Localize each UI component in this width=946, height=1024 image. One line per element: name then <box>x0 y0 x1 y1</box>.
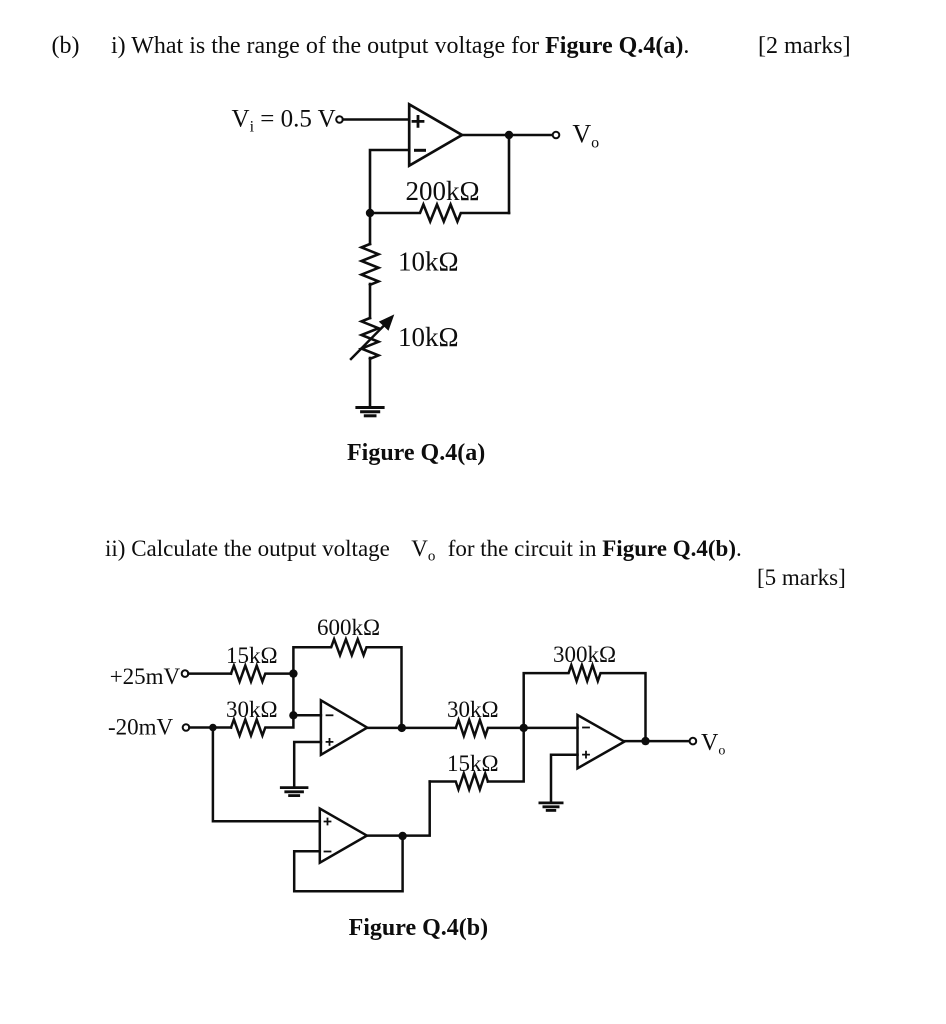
wire U2 output <box>367 727 456 730</box>
svg-text:[2 marks]: [2 marks] <box>758 33 851 59</box>
wire 10k to pot <box>369 284 372 318</box>
question text line i <box>52 33 851 59</box>
wire to 10k <box>369 213 372 244</box>
wire +25mV to 15k <box>188 672 231 675</box>
resistor R8 300k feedback <box>524 665 646 741</box>
wire U3 noninverting to ground <box>551 755 578 802</box>
wire follower feedback <box>294 840 402 891</box>
wire U2 noninverting to ground <box>294 742 321 786</box>
svg-text:Figure Q.4(b): Figure Q.4(b) <box>349 915 489 941</box>
svg-text:Figure Q.4(a): Figure Q.4(a) <box>347 440 485 466</box>
ground fig-a <box>357 406 383 409</box>
wire pot to ground <box>369 358 372 406</box>
node J5 <box>398 832 406 840</box>
svg-text:for the circuit in Figure Q.4(: for the circuit in Figure Q.4(b). <box>448 536 742 561</box>
svg-text:Vo: Vo <box>701 730 725 759</box>
wire follower output <box>367 834 403 837</box>
wire 15k down to follower output <box>403 782 430 836</box>
wire node C to U3 inverting <box>524 727 578 730</box>
resistor R3 10k variable <box>362 318 379 359</box>
svg-text:10kΩ: 10kΩ <box>398 322 459 352</box>
resistor R9 15k <box>430 774 488 790</box>
node feedback junction <box>366 209 374 217</box>
svg-text:+25mV: +25mV <box>110 664 181 689</box>
wire node C down to 15k <box>488 728 524 782</box>
svg-text:i) What is the range of the ou: i) What is the range of the output volta… <box>111 33 689 59</box>
node output junction <box>505 131 513 139</box>
wire U3 output to Vo <box>624 740 689 743</box>
svg-text:(b): (b) <box>52 33 80 59</box>
svg-text:Vi = 0.5 V: Vi = 0.5 V <box>232 106 336 136</box>
node +25mV terminal <box>182 670 189 677</box>
svg-text:15kΩ: 15kΩ <box>447 751 499 776</box>
wire -20mV branch down to follower <box>213 728 320 822</box>
svg-text:-20mV: -20mV <box>108 715 174 740</box>
svg-text:15kΩ: 15kΩ <box>226 643 278 668</box>
resistor R6 600k feedback <box>293 639 401 728</box>
wire inverting input <box>370 150 409 213</box>
resistor R1 200k feedback <box>370 205 509 222</box>
ground G1 <box>281 786 307 789</box>
node J2 <box>289 711 297 719</box>
node J4 <box>641 737 649 745</box>
svg-text:30kΩ: 30kΩ <box>447 697 499 722</box>
wire Vi to op-amp + input <box>343 118 409 121</box>
node branch junction <box>209 724 217 732</box>
node Vo terminal <box>553 132 560 139</box>
op-amp U4 follower <box>320 809 367 863</box>
svg-text:30kΩ: 30kΩ <box>226 697 278 722</box>
resistor R5 30k <box>231 715 293 735</box>
ground G2 <box>540 802 562 805</box>
wire op-amp output <box>462 134 553 137</box>
svg-text:10kΩ: 10kΩ <box>398 247 459 277</box>
node J1 <box>289 669 297 677</box>
node -20mV terminal <box>183 724 190 731</box>
svg-text:300kΩ: 300kΩ <box>553 642 616 667</box>
wire feedback right vertical <box>508 135 511 213</box>
node J3 <box>398 724 406 732</box>
svg-text:Vo: Vo <box>572 119 599 151</box>
resistor R7 30k <box>456 720 524 736</box>
svg-text:[5 marks]: [5 marks] <box>757 565 846 590</box>
op-amp U1 <box>409 104 462 165</box>
svg-text:600kΩ: 600kΩ <box>317 615 380 640</box>
question text line ii <box>105 536 846 590</box>
wire -20mV <box>189 726 231 729</box>
op-amp U2 <box>321 700 367 755</box>
node Vo terminal fig-b <box>690 738 697 745</box>
node Vi input terminal <box>336 116 343 123</box>
wire J1 to J2 <box>292 674 295 716</box>
op-amp U3 <box>578 715 625 768</box>
svg-text:o: o <box>428 549 436 565</box>
wire J2 to U2 inverting <box>293 714 321 717</box>
node C <box>520 724 528 732</box>
resistor R4 15k <box>231 666 293 682</box>
svg-text:V: V <box>411 536 428 561</box>
svg-text:200kΩ: 200kΩ <box>406 176 480 206</box>
resistor R2 10k <box>362 244 379 285</box>
svg-text:ii) Calculate the output volta: ii) Calculate the output voltage <box>105 536 390 561</box>
